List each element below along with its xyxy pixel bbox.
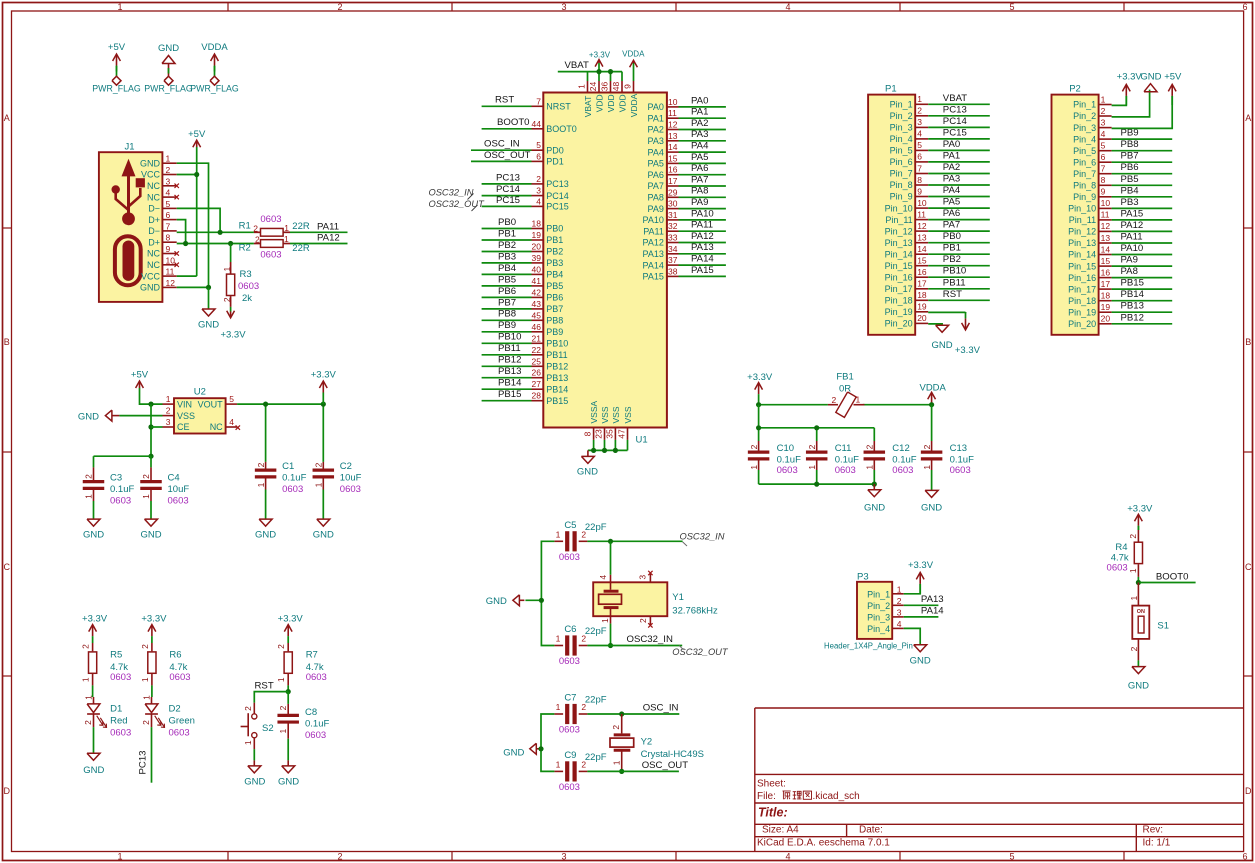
- svg-text:PA5: PA5: [648, 159, 664, 169]
- svg-text:KiCad E.D.A. eeschema 7.0.1: KiCad E.D.A. eeschema 7.0.1: [757, 837, 890, 848]
- svg-text:3: 3: [561, 2, 566, 12]
- wire VDDA pin: [633, 63, 635, 81]
- svg-text:D2: D2: [169, 703, 181, 714]
- title block: [755, 708, 1244, 852]
- svg-text:6: 6: [1242, 2, 1247, 12]
- connector P1 body: [868, 84, 915, 335]
- svg-text:0R: 0R: [839, 383, 851, 394]
- svg-text:PA10: PA10: [643, 215, 664, 225]
- ground C4: [140, 519, 161, 541]
- svg-text:Y2: Y2: [641, 737, 653, 748]
- svg-text:C: C: [1245, 562, 1252, 572]
- svg-text:B: B: [4, 337, 10, 347]
- svg-text:1: 1: [166, 154, 171, 164]
- svg-text:GND: GND: [1128, 680, 1149, 691]
- svg-text:Pin_1: Pin_1: [890, 100, 913, 110]
- power symbol +3.3V at P2: [1117, 72, 1143, 106]
- svg-text:47: 47: [617, 429, 627, 439]
- svg-text:22pF: 22pF: [585, 695, 607, 706]
- svg-text:1: 1: [284, 234, 289, 244]
- svg-text:PB8: PB8: [498, 309, 516, 320]
- svg-text:6: 6: [1101, 152, 1106, 162]
- svg-text:41: 41: [532, 276, 542, 286]
- wire P2 pin1 to +3.3V: [1112, 96, 1127, 106]
- svg-text:C: C: [4, 562, 11, 572]
- svg-text:RST: RST: [255, 680, 274, 691]
- svg-text:PC15: PC15: [496, 195, 520, 206]
- svg-text:PB7: PB7: [546, 304, 563, 314]
- svg-text:A: A: [4, 113, 10, 123]
- crystal Y1: [593, 571, 718, 628]
- ground C2: [313, 519, 334, 541]
- svg-text:B: B: [1245, 337, 1251, 347]
- svg-text:6: 6: [917, 152, 922, 162]
- svg-text:17: 17: [1101, 279, 1111, 289]
- wire VOUT rail: [237, 404, 323, 462]
- connector J1 body: [99, 142, 162, 302]
- svg-text:C2: C2: [340, 461, 352, 472]
- svg-text:7: 7: [1101, 164, 1106, 174]
- connector P1 pins: [885, 94, 929, 329]
- svg-text:44: 44: [532, 119, 542, 129]
- svg-text:PD0: PD0: [546, 145, 564, 155]
- wire VIN-CE-caps vertical: [150, 404, 152, 456]
- svg-text:16: 16: [917, 267, 927, 277]
- svg-text:VSS: VSS: [600, 406, 610, 423]
- crystal Y2: [610, 714, 704, 769]
- svg-text:4: 4: [536, 196, 541, 206]
- svg-text:+3.3V: +3.3V: [1127, 504, 1153, 515]
- capacitor C8: [277, 704, 329, 741]
- svg-text:PA2: PA2: [648, 125, 664, 135]
- junction caps input rail: [148, 454, 153, 459]
- wire J1 pin7 D- to R1: [177, 231, 254, 233]
- svg-text:VBAT: VBAT: [943, 93, 967, 104]
- svg-text:PB13: PB13: [498, 366, 521, 377]
- junction FB 3v3: [756, 402, 761, 407]
- svg-text:1: 1: [222, 266, 232, 271]
- ground Y1 caps: [486, 595, 525, 607]
- svg-text:2: 2: [638, 618, 648, 623]
- svg-text:Crystal-HC49S: Crystal-HC49S: [641, 749, 704, 760]
- svg-text:+3.3V: +3.3V: [1117, 72, 1143, 83]
- svg-text:GND: GND: [278, 777, 299, 788]
- svg-text:10uF: 10uF: [340, 473, 362, 484]
- svg-text:2: 2: [922, 444, 932, 449]
- svg-text:2: 2: [81, 644, 91, 649]
- svg-text:GND: GND: [83, 765, 104, 776]
- svg-text:PA7: PA7: [943, 220, 960, 231]
- svg-text:PB4: PB4: [546, 270, 563, 280]
- labels U1 right nets: [691, 95, 714, 275]
- ground S1: [1128, 666, 1149, 691]
- svg-text:1: 1: [141, 494, 151, 499]
- svg-text:GND: GND: [921, 502, 942, 513]
- wire +5V to VIN: [140, 388, 163, 404]
- svg-text:17: 17: [917, 279, 927, 289]
- svg-text:6: 6: [166, 210, 171, 220]
- svg-text:PWR_FLAG: PWR_FLAG: [144, 84, 193, 94]
- svg-text:22pF: 22pF: [585, 522, 607, 533]
- svg-text:PA1: PA1: [943, 150, 960, 161]
- svg-text:D+: D+: [148, 237, 160, 247]
- wire RST to C8: [287, 692, 289, 704]
- svg-text:PA4: PA4: [943, 185, 961, 196]
- junction VDD24: [596, 69, 601, 74]
- svg-text:27: 27: [532, 379, 542, 389]
- wire P1 pin19 to +3.3V: [928, 311, 965, 313]
- svg-text:29: 29: [668, 187, 678, 197]
- ground C8: [278, 760, 299, 787]
- svg-text:1: 1: [577, 84, 587, 89]
- svg-text:PB5: PB5: [498, 274, 516, 285]
- svg-text:PB0: PB0: [943, 231, 961, 242]
- svg-text:Title:: Title:: [758, 806, 788, 820]
- switch S1: [1129, 583, 1169, 661]
- svg-text:PA7: PA7: [691, 174, 708, 185]
- svg-text:0.1uF: 0.1uF: [892, 454, 916, 465]
- svg-text:GND: GND: [864, 502, 885, 513]
- wire U1 right nets: [679, 107, 726, 277]
- svg-text:Pin_7: Pin_7: [890, 169, 913, 179]
- svg-text:VOUT: VOUT: [198, 399, 224, 409]
- svg-text:9: 9: [917, 186, 922, 196]
- svg-text:OSC32_IN: OSC32_IN: [429, 187, 474, 197]
- svg-text:7: 7: [917, 163, 922, 173]
- svg-text:Pin_16: Pin_16: [885, 272, 913, 282]
- svg-text:.kicad_sch: .kicad_sch: [813, 791, 860, 802]
- label P3 footprint: [824, 642, 913, 651]
- junction Y2 top node: [619, 711, 624, 716]
- svg-text:GND: GND: [244, 777, 265, 788]
- svg-text:1: 1: [278, 728, 288, 733]
- svg-text:4: 4: [598, 575, 608, 580]
- wire GND to VSS: [119, 415, 162, 417]
- svg-text:PB13: PB13: [546, 373, 568, 383]
- svg-text:PC13: PC13: [496, 172, 520, 183]
- svg-text:6: 6: [1242, 852, 1247, 862]
- svg-text:14: 14: [1101, 244, 1111, 254]
- wire R5 to D1: [92, 674, 95, 704]
- svg-text:30: 30: [668, 199, 678, 209]
- svg-text:+5V: +5V: [131, 370, 149, 381]
- svg-text:32.768kHz: 32.768kHz: [672, 606, 718, 617]
- svg-text:0603: 0603: [282, 484, 303, 495]
- svg-text:2: 2: [141, 474, 151, 479]
- svg-text:46: 46: [532, 322, 542, 332]
- svg-text:C4: C4: [168, 473, 180, 484]
- svg-text:1: 1: [166, 394, 171, 404]
- svg-text:11: 11: [668, 108, 677, 118]
- svg-text:PB7: PB7: [498, 297, 516, 308]
- svg-text:R4: R4: [1115, 542, 1127, 553]
- power symbol +3.3V at P1: [955, 312, 981, 356]
- capacitor C1: [255, 461, 307, 495]
- svg-text:D1: D1: [110, 703, 122, 714]
- svg-text:PB9: PB9: [546, 327, 563, 337]
- svg-text:2: 2: [278, 705, 288, 710]
- svg-text:0603: 0603: [559, 782, 580, 793]
- svg-text:12: 12: [668, 120, 678, 130]
- junction C10 top: [756, 425, 761, 430]
- svg-text:D+: D+: [148, 215, 160, 225]
- svg-text:0.1uF: 0.1uF: [835, 454, 859, 465]
- svg-text:PA7: PA7: [648, 181, 664, 191]
- svg-text:R5: R5: [110, 649, 122, 660]
- power symbol +3.3V at U2 out: [311, 370, 337, 405]
- svg-text:PB15: PB15: [498, 389, 521, 400]
- svg-text:1: 1: [256, 482, 266, 487]
- wire P2 nets: [1112, 139, 1173, 324]
- svg-text:PA15: PA15: [1121, 208, 1144, 219]
- svg-text:PA1: PA1: [648, 113, 664, 123]
- wire C5 left: [541, 541, 554, 600]
- svg-text:File:: File:: [757, 791, 776, 802]
- wire J1 pin1 GND to vertical: [177, 163, 209, 287]
- svg-text:8: 8: [583, 431, 593, 436]
- svg-text:GND: GND: [1140, 72, 1161, 83]
- svg-text:2: 2: [276, 644, 286, 649]
- svg-text:Pin_18: Pin_18: [885, 296, 913, 306]
- svg-text:1: 1: [84, 494, 94, 499]
- svg-text:PB11: PB11: [943, 277, 966, 288]
- connector J1 pins: [140, 154, 179, 293]
- svg-text:1: 1: [612, 760, 622, 765]
- regulator U2 body: [174, 387, 226, 434]
- svg-text:4: 4: [785, 852, 790, 862]
- svg-text:S1: S1: [1157, 621, 1169, 632]
- power symbol VDDA at FB1: [919, 383, 946, 405]
- svg-text:VCC: VCC: [141, 170, 161, 180]
- svg-text:PB14: PB14: [498, 378, 522, 389]
- connector P3 pins: [867, 585, 904, 634]
- svg-text:14: 14: [917, 244, 927, 254]
- svg-text:2: 2: [314, 462, 324, 467]
- resistor R2: [239, 234, 310, 261]
- wire C2 to GND: [322, 490, 324, 519]
- svg-text:39: 39: [532, 253, 542, 263]
- svg-text:45: 45: [532, 310, 542, 320]
- svg-text:PC13: PC13: [943, 104, 967, 115]
- svg-text:12: 12: [917, 221, 927, 231]
- label OSC32_IN black: [627, 634, 673, 645]
- wire CE stub: [151, 426, 163, 428]
- svg-text:5: 5: [917, 140, 922, 150]
- svg-text:0.1uF: 0.1uF: [305, 719, 329, 730]
- junction D- node: [218, 230, 223, 235]
- svg-text:2: 2: [611, 725, 621, 730]
- svg-text:5: 5: [1101, 141, 1106, 151]
- svg-text:Pin_6: Pin_6: [890, 157, 913, 167]
- svg-text:PA12: PA12: [691, 231, 714, 242]
- connector P2 pins: [1068, 94, 1112, 329]
- svg-text:OSC_OUT: OSC_OUT: [642, 760, 689, 771]
- svg-text:0603: 0603: [1107, 562, 1128, 573]
- svg-text:Pin_4: Pin_4: [1073, 134, 1096, 144]
- svg-text:GND: GND: [255, 530, 276, 541]
- svg-text:Red: Red: [110, 715, 127, 726]
- svg-text:20: 20: [532, 242, 542, 252]
- capacitor C6: [554, 624, 606, 667]
- svg-text:0603: 0603: [892, 465, 913, 476]
- wire D1 to GND: [93, 714, 95, 753]
- junction J1 VCC: [194, 172, 199, 177]
- svg-text:PA11: PA11: [643, 226, 664, 236]
- svg-text:GND: GND: [140, 530, 161, 541]
- svg-text:Pin_9: Pin_9: [890, 192, 913, 202]
- svg-text:6: 6: [536, 151, 541, 161]
- svg-text:2: 2: [166, 165, 171, 175]
- mcu U1 top pins: [577, 81, 639, 117]
- ground P3: [910, 645, 931, 667]
- svg-text:RST: RST: [943, 289, 962, 300]
- svg-text:8: 8: [917, 175, 922, 185]
- wire C7 left: [541, 714, 554, 749]
- svg-text:P1: P1: [885, 84, 897, 95]
- svg-text:PA10: PA10: [1121, 243, 1144, 254]
- svg-text:1: 1: [83, 695, 93, 700]
- svg-text:NRST: NRST: [546, 102, 571, 112]
- svg-text:C13: C13: [950, 443, 967, 454]
- wire R7 to RST rail: [287, 674, 289, 692]
- label OSC_IN: [643, 703, 679, 714]
- svg-text:19: 19: [917, 302, 927, 312]
- svg-text:PA10: PA10: [691, 208, 714, 219]
- svg-text:Pin_3: Pin_3: [1073, 123, 1096, 133]
- svg-text:PA12: PA12: [317, 233, 340, 244]
- svg-text:Pin_1: Pin_1: [867, 589, 890, 599]
- svg-text:PB12: PB12: [1121, 312, 1144, 323]
- svg-text:+5V: +5V: [188, 129, 206, 140]
- svg-text:PA1: PA1: [691, 107, 708, 118]
- svg-text:3: 3: [166, 176, 171, 186]
- svg-text:35: 35: [604, 429, 614, 439]
- wire P3 pin3: [904, 616, 939, 618]
- svg-text:0.1uF: 0.1uF: [950, 454, 974, 465]
- svg-text:15: 15: [668, 153, 678, 163]
- wire C8 to GND: [287, 739, 289, 761]
- wire C1 to GND: [265, 490, 267, 519]
- svg-text:PB11: PB11: [546, 350, 567, 360]
- svg-text:0603: 0603: [110, 727, 131, 738]
- svg-text:P3: P3: [857, 571, 869, 582]
- ground P1: [932, 325, 953, 351]
- svg-text:PC15: PC15: [943, 127, 967, 138]
- svg-text:PA5: PA5: [691, 152, 708, 163]
- svg-text:Pin_19: Pin_19: [1068, 307, 1096, 317]
- svg-text:PC13: PC13: [138, 751, 149, 775]
- junction VDD36: [608, 69, 613, 74]
- capacitor C2: [313, 461, 362, 495]
- svg-text:PA0: PA0: [691, 95, 708, 106]
- svg-text:5: 5: [1009, 2, 1014, 12]
- junction VSS23: [602, 448, 607, 453]
- capacitor C4: [140, 467, 189, 506]
- svg-text:U1: U1: [636, 435, 648, 446]
- svg-text:37: 37: [668, 255, 678, 265]
- svg-text:S2: S2: [262, 723, 274, 734]
- svg-text:0603: 0603: [260, 250, 281, 261]
- svg-text:0603: 0603: [169, 727, 190, 738]
- USB trident icon: [112, 159, 145, 226]
- svg-text:PC14: PC14: [943, 116, 968, 127]
- svg-text:3: 3: [897, 608, 902, 618]
- svg-text:NC: NC: [147, 192, 160, 202]
- svg-text:Pin_9: Pin_9: [1073, 192, 1096, 202]
- wire VBAT rail: [558, 63, 622, 81]
- svg-text:0.1uF: 0.1uF: [282, 473, 306, 484]
- svg-text:Pin_18: Pin_18: [1068, 296, 1096, 306]
- wire C13 bottom: [931, 470, 933, 490]
- svg-text:0603: 0603: [306, 672, 327, 683]
- ground C13: [921, 490, 942, 513]
- ferrite bead FB1: [828, 372, 865, 418]
- svg-text:PA3: PA3: [943, 174, 960, 185]
- svg-text:PA0: PA0: [943, 139, 960, 150]
- label RST: [255, 680, 274, 691]
- svg-text:Pin_19: Pin_19: [885, 307, 913, 317]
- power symbol +3.3V at P3: [908, 560, 934, 594]
- svg-text:+3.3V: +3.3V: [220, 330, 246, 341]
- junction Y2 bottom node: [619, 769, 624, 774]
- svg-text:Pin_20: Pin_20: [885, 319, 913, 329]
- svg-text:Id: 1/1: Id: 1/1: [1143, 837, 1171, 848]
- resistor R1: [239, 214, 310, 236]
- svg-text:22pF: 22pF: [585, 752, 607, 763]
- svg-text:PA11: PA11: [1121, 232, 1143, 243]
- svg-text:5: 5: [166, 199, 171, 209]
- svg-text:PA4: PA4: [648, 147, 664, 157]
- svg-text:PB6: PB6: [546, 293, 563, 303]
- svg-text:0603: 0603: [835, 465, 856, 476]
- svg-text:+3.3V: +3.3V: [589, 51, 611, 60]
- svg-text:VBAT: VBAT: [565, 60, 589, 71]
- wire GND to Y1 cap rail: [525, 599, 541, 601]
- svg-text:PB6: PB6: [498, 286, 516, 297]
- svg-text:Pin_3: Pin_3: [867, 613, 890, 623]
- svg-text:0603: 0603: [559, 656, 580, 667]
- svg-text:5: 5: [1009, 852, 1014, 862]
- svg-text:Pin_12: Pin_12: [885, 226, 913, 236]
- svg-text:2: 2: [243, 706, 253, 711]
- svg-text:0603: 0603: [168, 496, 189, 507]
- svg-text:+3.3V: +3.3V: [955, 345, 981, 356]
- svg-text:1: 1: [1101, 94, 1106, 104]
- junction R3 top node: [228, 241, 233, 246]
- svg-text:PC13: PC13: [546, 179, 569, 189]
- svg-text:Pin_10: Pin_10: [1068, 204, 1096, 214]
- svg-text:PA13: PA13: [691, 242, 714, 253]
- svg-text:Pin_6: Pin_6: [1073, 157, 1096, 167]
- wire P1 nets: [928, 104, 990, 300]
- svg-text:PB2: PB2: [943, 254, 961, 265]
- svg-text:1: 1: [749, 465, 759, 470]
- svg-text:J1: J1: [124, 142, 134, 153]
- regulator U2 pins: [163, 394, 241, 432]
- label PA14: [921, 605, 944, 616]
- svg-text:C1: C1: [282, 461, 294, 472]
- svg-text:0603: 0603: [777, 465, 798, 476]
- labels U1 left nets: [484, 95, 531, 400]
- svg-text:16: 16: [668, 165, 678, 175]
- svg-text:R6: R6: [169, 649, 181, 660]
- svg-text:34: 34: [668, 244, 678, 254]
- svg-text:VDDA: VDDA: [919, 383, 946, 394]
- svg-text:OSC_IN: OSC_IN: [643, 703, 679, 714]
- wire C9 left: [541, 749, 554, 772]
- svg-text:C11: C11: [835, 443, 852, 454]
- svg-text:43: 43: [532, 299, 542, 309]
